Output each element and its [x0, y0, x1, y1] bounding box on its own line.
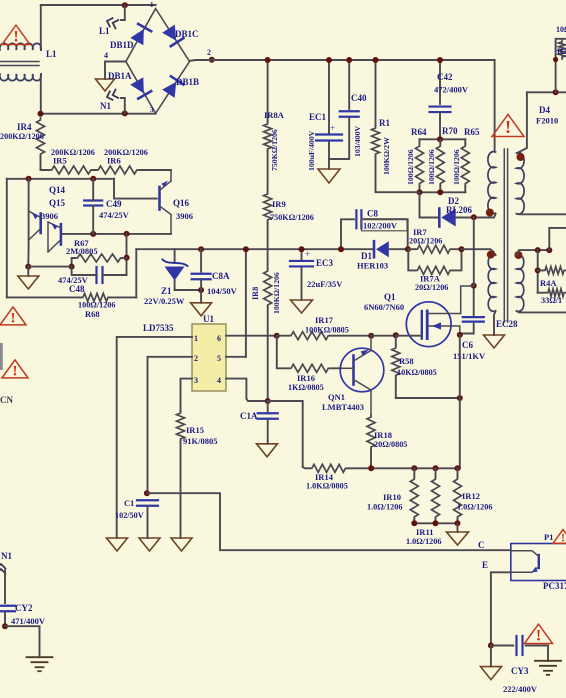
junction row233 at x126 [124, 231, 130, 237]
svg-text:1.0Ω/1206: 1.0Ω/1206 [457, 503, 492, 512]
wire secondary2 top out [517, 250, 550, 255]
transistor Q16 emitter [160, 181, 172, 191]
transformer T1 aux winding [488, 255, 495, 312]
svg-text:DB1C: DB1C [175, 29, 199, 39]
svg-text:!: ! [11, 310, 16, 326]
ground C8A [191, 303, 212, 316]
junction bottom rail at N1 arrester [122, 110, 128, 116]
svg-text:1: 1 [150, 1, 154, 9]
startup chain top [267, 60, 269, 122]
capacitor C1A lead [267, 401, 269, 444]
resistor IR10 [413, 468, 415, 477]
junction Q15 emitter ground node [25, 264, 31, 270]
optocoupler transistor bar [538, 555, 540, 568]
svg-text:F2010: F2010 [536, 116, 558, 126]
junction sense bl [411, 520, 417, 526]
junction C42 rail [437, 57, 443, 63]
wire pin1 [117, 337, 192, 538]
earth ground CY2 [27, 657, 53, 671]
svg-text:HER103: HER103 [357, 261, 388, 271]
wire R4A branch [537, 250, 539, 293]
svg-text:3906: 3906 [41, 211, 58, 221]
capacitor CY3 [517, 636, 523, 655]
svg-text:R1: R1 [379, 118, 390, 128]
wire main DC rail [190, 59, 495, 62]
capacitor C42 lead bottom [439, 112, 441, 139]
svg-text:100Ω/1206: 100Ω/1206 [427, 149, 436, 185]
spark gap L1 lead [121, 5, 125, 20]
junction R3 mid [553, 57, 558, 62]
svg-text:E: E [482, 560, 488, 570]
transistor Q16 arrow [161, 181, 168, 188]
svg-text:CN: CN [0, 395, 13, 405]
junction choke bottom [38, 111, 44, 117]
junction snubber bottom left [417, 189, 423, 195]
svg-text:750KΩ/1206: 750KΩ/1206 [270, 213, 314, 222]
optocoupler U3 box [511, 544, 566, 581]
svg-text:103/400V: 103/400V [353, 125, 362, 157]
resistor IR7A [415, 266, 452, 274]
svg-text:QN1: QN1 [328, 392, 345, 402]
svg-text:1.0KΩ/0805: 1.0KΩ/0805 [306, 482, 348, 491]
svg-text:C8: C8 [367, 209, 378, 219]
wire choke bottom lead [40, 74, 42, 114]
resistor R70 [439, 139, 441, 144]
svg-text:10KΩ/0805: 10KΩ/0805 [397, 368, 437, 377]
wire Q1 source lead [427, 326, 460, 335]
svg-text:!: ! [505, 117, 511, 137]
svg-text:N1: N1 [100, 101, 111, 111]
wire IR9-IR8 [267, 222, 269, 269]
capacitor C1 [137, 500, 158, 506]
svg-text:102/50V: 102/50V [115, 511, 144, 520]
ground C1A [257, 444, 278, 457]
svg-text:6N60/7N60: 6N60/7N60 [364, 302, 404, 312]
wire D2 anode to primary [456, 217, 492, 219]
wire D4 drop to secondary1 [517, 92, 527, 153]
wire R58 bottom row [396, 397, 460, 399]
svg-text:IR18: IR18 [374, 430, 392, 440]
wire IR17 to gate [371, 335, 421, 337]
svg-text:R70: R70 [442, 126, 458, 136]
svg-text:+: + [330, 123, 335, 133]
svg-text:C42: C42 [437, 72, 453, 82]
wire Q1 gate lead [396, 335, 422, 337]
ground EC1 C40 [328, 159, 330, 169]
wire source down [459, 335, 461, 468]
wire snubber bottom row [420, 191, 466, 193]
svg-text:IR7A: IR7A [420, 274, 441, 284]
spark gap N1 bottom [0, 564, 6, 574]
junction D4 row [553, 89, 559, 95]
svg-text:33Ω/1: 33Ω/1 [541, 296, 562, 305]
svg-text:3: 3 [150, 106, 154, 114]
wire bottom-left rail to bridge [41, 113, 156, 115]
transistor QN1 base bar [352, 356, 355, 385]
svg-text:100Ω/1206: 100Ω/1206 [452, 149, 461, 185]
svg-text:U1: U1 [203, 314, 214, 324]
warning triangle top-left [2, 25, 30, 45]
transistor QN1 arrow [361, 350, 369, 356]
svg-text:R65: R65 [464, 127, 480, 137]
wire choke top lead [40, 5, 42, 48]
zener Z1 [165, 267, 185, 281]
svg-text:C6: C6 [462, 340, 473, 350]
svg-text:EC3: EC3 [316, 258, 334, 268]
wire Q14 collector row [61, 233, 171, 235]
svg-text:CY2: CY2 [15, 603, 33, 613]
connector CN bar [0, 343, 3, 370]
svg-text:20Ω/0805: 20Ω/0805 [374, 440, 407, 449]
svg-text:!: ! [13, 363, 18, 379]
junction R67 right [124, 255, 130, 261]
resistor R4A [538, 269, 543, 271]
svg-text:DB1B: DB1B [176, 77, 199, 87]
resistor R68 [81, 293, 110, 301]
wire Q15 left vertical [27, 179, 29, 267]
svg-text:100KΩ/0805: 100KΩ/0805 [305, 326, 349, 335]
junction C1 node [144, 490, 150, 496]
junction EC3 VCC [299, 246, 305, 252]
svg-text:20Ω/1206: 20Ω/1206 [415, 283, 448, 292]
wire base link to Q16 [114, 179, 157, 199]
svg-text:EC28: EC28 [496, 319, 518, 329]
svg-text:Q16: Q16 [173, 198, 190, 208]
junction source node [457, 395, 463, 401]
svg-text:L1: L1 [46, 49, 57, 59]
svg-text:D4: D4 [539, 105, 550, 115]
junction C49 top [90, 176, 96, 182]
capacitor CY2 [0, 606, 15, 612]
resistor IR16 [289, 364, 331, 372]
wire VCC to aux winding [462, 249, 494, 252]
wire Q14 section left side [6, 179, 8, 298]
svg-text:102/200V: 102/200V [363, 221, 398, 231]
svg-text:EC1: EC1 [309, 112, 327, 122]
svg-text:R58: R58 [399, 356, 414, 366]
earth ground CY3 [535, 661, 561, 675]
svg-text:151/1KV: 151/1KV [453, 351, 486, 361]
junction C6 source [457, 332, 463, 338]
svg-text:C1A: C1A [240, 411, 258, 421]
wire bridge left vertex to node 4 [105, 62, 126, 80]
capacitor EC3 lead [301, 249, 303, 300]
wire R3 branch [556, 39, 566, 93]
junction IR12 top [455, 465, 461, 471]
IC U1 box [192, 324, 226, 391]
junction D1 VCC right [405, 246, 411, 252]
svg-text:CY3: CY3 [511, 666, 529, 676]
transformer T1 secondary2 winding [517, 255, 524, 312]
svg-text:IR11: IR11 [416, 527, 433, 537]
wire IR16 branch [277, 336, 289, 369]
svg-text:R3: R3 [557, 46, 566, 56]
transistor Q15 bar [39, 214, 42, 233]
wire D2 cathode riser [420, 192, 440, 217]
transistor Q14 arrow [51, 223, 58, 230]
svg-text:DB1A: DB1A [108, 71, 132, 81]
transistor QN1 circle [340, 348, 384, 392]
junction aux feed [459, 246, 465, 252]
svg-text:1.0Ω/1206: 1.0Ω/1206 [406, 537, 441, 546]
junction IR10 top [411, 465, 417, 471]
ground Q15 emitter [27, 267, 29, 276]
transformer core [503, 149, 505, 322]
svg-text:!: ! [561, 532, 565, 544]
svg-text:2: 2 [194, 354, 198, 363]
svg-text:22V/0.25W: 22V/0.25W [144, 296, 185, 306]
svg-text:IR8A: IR8A [264, 110, 285, 120]
junction node 2 [209, 57, 215, 63]
wire Q1 drain lead [427, 286, 474, 314]
resistor R1 [375, 60, 377, 126]
transistor Q1 gate bar [421, 311, 423, 339]
wire VCC row [136, 248, 408, 250]
transistor Q1 circle [406, 302, 451, 347]
wire C8 right [364, 219, 408, 249]
wire drain riser [473, 218, 475, 286]
svg-text:Q15: Q15 [49, 198, 66, 208]
junction top rail at L1 arrester [122, 2, 128, 8]
wire C1 node to bottom rail [147, 493, 511, 550]
junction R4A node [535, 267, 541, 273]
junction snubber bottom mid [437, 189, 443, 195]
junction pin6 node [274, 333, 280, 339]
svg-text:6: 6 [217, 334, 221, 343]
capacitor C8A [192, 274, 211, 280]
wire pin2 [148, 357, 193, 493]
wire snubber top row [420, 138, 466, 140]
svg-text:5: 5 [217, 354, 221, 363]
resistor IR18 [367, 415, 375, 449]
junction sec2 R4A [535, 247, 541, 253]
wire IR8 to C1A node [267, 307, 269, 401]
capacitor C40 lead [329, 60, 349, 159]
svg-text:!: ! [13, 29, 18, 46]
wire IR15 down [180, 441, 182, 538]
transistor QN1 emitter lead [354, 380, 372, 416]
spark gap arrester L1 [105, 16, 119, 29]
resistor IR6 [96, 166, 139, 174]
svg-text:2: 2 [207, 48, 211, 57]
wire tap up to edge [549, 228, 566, 250]
svg-text:3: 3 [194, 376, 198, 385]
svg-text:1KΩ/0805: 1KΩ/0805 [288, 383, 324, 392]
transistor Q16 bar [158, 187, 161, 210]
svg-text:P1: P1 [544, 532, 553, 542]
polarity dot secondary2 top [514, 251, 522, 259]
svg-text:IR5: IR5 [53, 156, 67, 166]
junction CY3 node [488, 643, 494, 649]
transistor Q15 arrow [32, 212, 39, 219]
warning triangle left mid1 [0, 307, 26, 326]
wire aux bottom to ground [494, 311, 496, 335]
svg-text:474/25V: 474/25V [99, 210, 130, 220]
svg-text:22uF/35V: 22uF/35V [307, 279, 343, 289]
transistor Q1 arrow [432, 322, 441, 329]
svg-text:IR9: IR9 [272, 199, 286, 209]
svg-text:+: + [305, 249, 310, 259]
optocoupler emitter lead [511, 567, 539, 573]
svg-text:LMBT4403: LMBT4403 [322, 402, 364, 412]
spark gap arrester N1 [105, 89, 119, 102]
spark gap N1 lead [121, 98, 125, 113]
bridge rectifier frame [126, 9, 190, 114]
junction IR8A rail [265, 57, 271, 63]
capacitor C42 lead top [439, 60, 441, 104]
wire primary bottom [492, 214, 496, 218]
junction snubber top [437, 136, 443, 142]
transformer T1 primary winding [488, 152, 496, 214]
ground aux winding [484, 335, 505, 348]
svg-text:100Ω/1206: 100Ω/1206 [406, 149, 415, 185]
capacitor C6 [463, 317, 484, 322]
wire CY2 to earth [5, 626, 40, 657]
junction QN1 collector [368, 333, 374, 339]
capacitor EC1 lead [328, 60, 330, 159]
wire C1A row right [268, 401, 303, 467]
polarity dot secondary1 top [517, 153, 525, 161]
ground node 4 [96, 79, 115, 91]
svg-text:IR6: IR6 [107, 156, 121, 166]
wire CY3 right [526, 646, 548, 661]
svg-text:R4A: R4A [540, 278, 557, 288]
junction Q15 base feed [26, 176, 32, 182]
junction sense bm [433, 520, 439, 526]
wire sense bottom row [414, 519, 457, 523]
polarity dot primary bottom [486, 209, 494, 217]
wire IR4 to row [40, 156, 42, 170]
transistor Q14 leads [48, 222, 61, 252]
resistor IR14 [310, 464, 348, 472]
transistor Q16 collector [160, 206, 172, 234]
svg-text:91K/0805: 91K/0805 [183, 436, 217, 446]
transistor QN1 collector lead [354, 336, 372, 361]
capacitor EC1 plates [316, 135, 342, 141]
junction C48 left [69, 264, 75, 270]
svg-text:C1: C1 [124, 498, 134, 508]
svg-text:100KΩ/1206: 100KΩ/1206 [272, 272, 281, 314]
wire CY3 left [491, 645, 513, 647]
wire row 266 [28, 266, 71, 268]
wire E lead [491, 572, 511, 645]
svg-text:IR17: IR17 [315, 315, 334, 325]
svg-text:471/400V: 471/400V [11, 616, 46, 626]
wire Q14 section top row [7, 178, 114, 180]
junction Z1 C8A [198, 287, 204, 293]
svg-text:1: 1 [194, 334, 198, 343]
transistor Q15 leads [29, 211, 41, 240]
svg-text:IR4: IR4 [17, 122, 32, 132]
optocoupler arrow [532, 567, 538, 573]
svg-text:10Ω: 10Ω [556, 25, 566, 34]
wire pin3 [181, 379, 193, 411]
svg-text:IR12: IR12 [462, 491, 480, 501]
svg-text:R64: R64 [411, 127, 427, 137]
svg-text:IR7: IR7 [413, 227, 427, 237]
resistor R58 [395, 336, 397, 346]
warning triangle CY3 [525, 624, 553, 644]
capacitor C49 [84, 201, 102, 206]
wire aux top [494, 252, 496, 255]
svg-text:100KΩ/2W: 100KΩ/2W [382, 137, 391, 175]
svg-text:472/400V: 472/400V [434, 85, 469, 95]
common-mode choke L1 bottom winding [0, 74, 41, 81]
svg-text:!: ! [536, 628, 541, 645]
wire riser to VCC row [135, 249, 137, 297]
capacitor C48 [97, 267, 103, 283]
transformer T1 secondary1 winding [517, 153, 525, 214]
capacitor C6 bottom lead [460, 324, 474, 334]
wire D4 row [527, 91, 566, 93]
polarity dot aux top [487, 251, 495, 259]
optocoupler collector lead [511, 551, 539, 557]
svg-text:IR15: IR15 [186, 425, 204, 435]
wire R67 ends [72, 258, 127, 267]
svg-text:222/400V: 222/400V [503, 684, 538, 694]
ground pin1 [107, 538, 128, 551]
wire Q14 section bottom row [7, 296, 137, 298]
wire secondary2 bottom out [517, 311, 566, 312]
svg-text:C40: C40 [351, 93, 367, 103]
common-mode choke L1 top winding [0, 43, 41, 50]
junction C1A node [265, 398, 271, 404]
svg-text:104/50V: 104/50V [207, 286, 238, 296]
resistor IR7 [415, 245, 452, 253]
svg-text:20Ω/1206: 20Ω/1206 [409, 237, 442, 246]
junction C40 rail [346, 57, 352, 63]
diode DB1D [130, 24, 151, 45]
svg-text:IR8: IR8 [251, 287, 260, 300]
svg-text:IR10: IR10 [383, 492, 401, 502]
svg-text:4: 4 [104, 51, 108, 60]
wire IR8A-IR9 [267, 151, 269, 192]
resistor IR4 [37, 118, 45, 156]
junction R1 rail [373, 57, 379, 63]
svg-text:PC317: PC317 [543, 581, 566, 591]
ground C1 [139, 538, 160, 551]
junction EC1 rail [326, 57, 332, 63]
ground IR15 [171, 538, 192, 551]
svg-text:Z1: Z1 [161, 286, 172, 296]
diode DB1A [130, 77, 151, 98]
wire pin5 riser [245, 249, 247, 357]
resistor R64 [419, 139, 421, 144]
svg-text:IR14: IR14 [315, 472, 334, 482]
warning triangle P1 [553, 530, 566, 545]
zener Z1 lead [174, 249, 176, 263]
svg-text:RL206: RL206 [446, 205, 473, 215]
ground E [481, 667, 502, 680]
diode D2 [439, 209, 455, 227]
svg-text:Q1: Q1 [384, 292, 396, 302]
wire IR18 bottom [370, 449, 372, 468]
junction pin5 VCC [243, 246, 249, 252]
junction drain node top [471, 214, 477, 220]
junction C49 bottom [90, 231, 96, 237]
diode D1 [374, 241, 389, 257]
resistor R4B [538, 292, 546, 294]
warning triangle transformer [492, 114, 524, 137]
wire pin6 row [226, 335, 277, 337]
svg-text:100uF/400V: 100uF/400V [307, 130, 316, 171]
resistor IR15 [177, 411, 185, 441]
resistor IR5 [50, 166, 93, 174]
svg-text:N1: N1 [1, 551, 12, 561]
svg-text:LD7535: LD7535 [143, 323, 174, 333]
transistor Q1 channel bar [426, 311, 429, 339]
wire IR7A right riser [452, 249, 462, 270]
